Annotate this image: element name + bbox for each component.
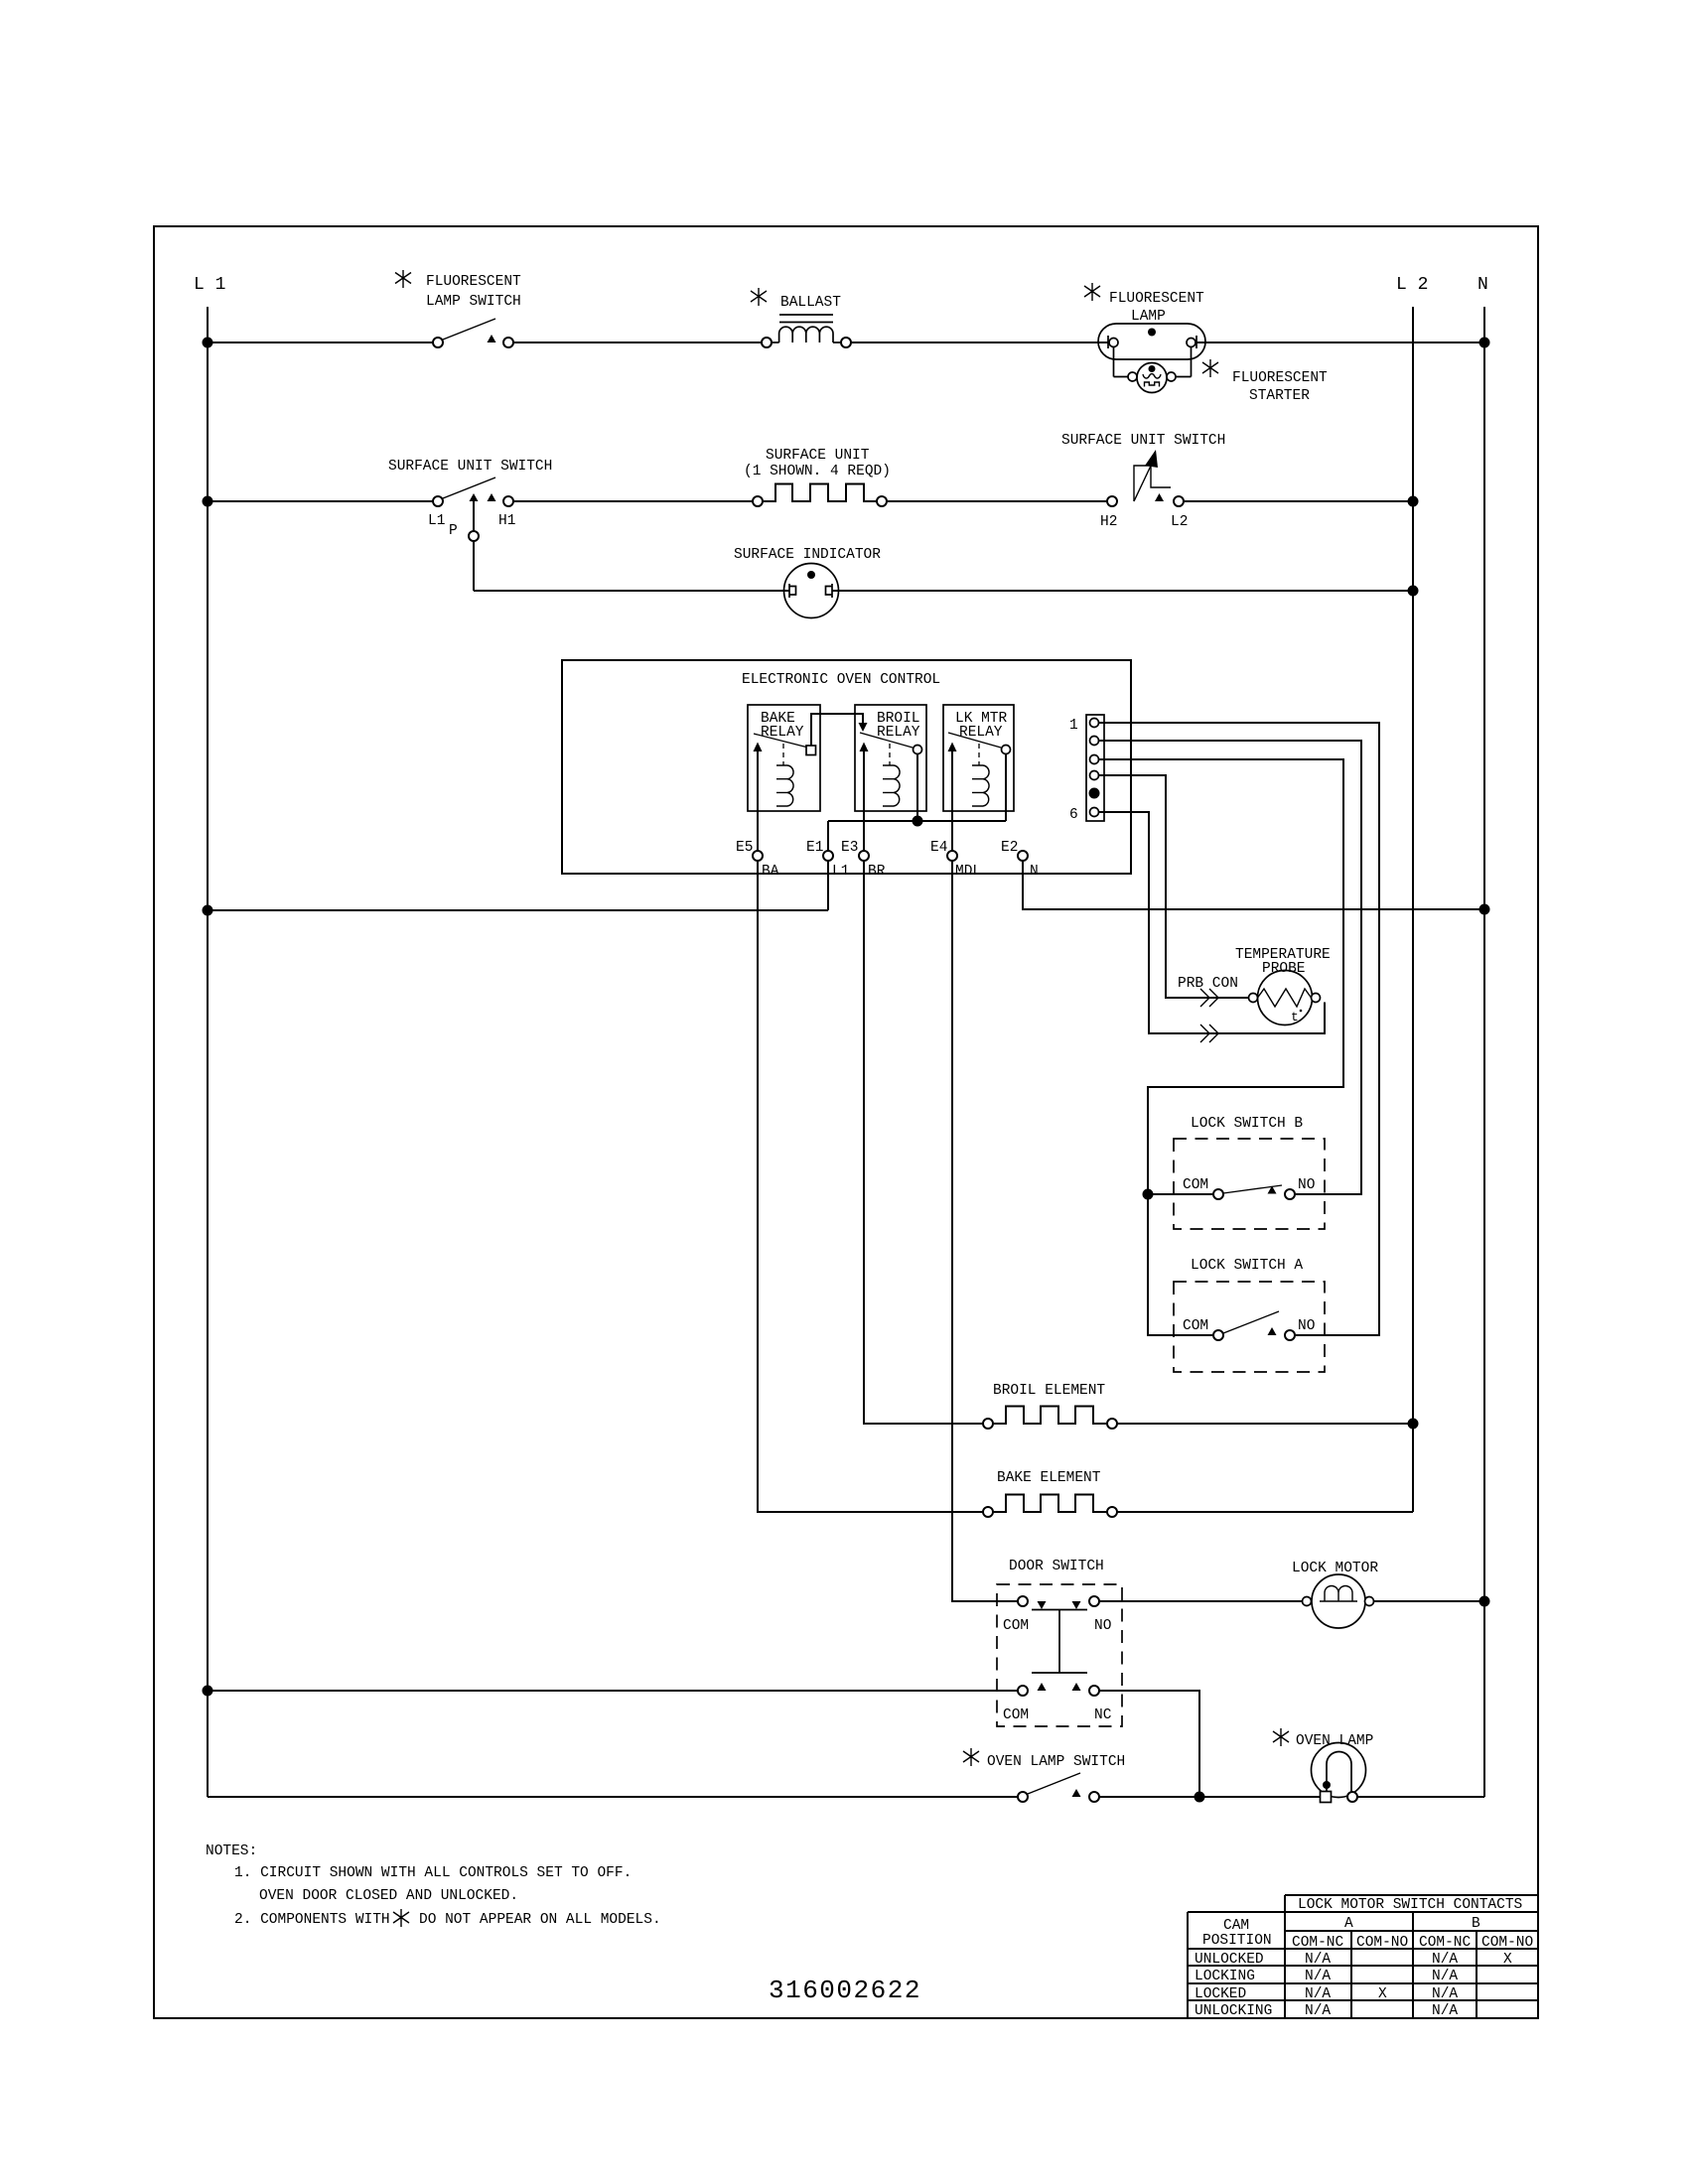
SECTION:EOC [758, 861, 1418, 1517]
wire pin3 to lock switches COM [1099, 759, 1344, 1335]
surface unit switch S2 (left) [433, 496, 443, 506]
terminal P [469, 531, 479, 541]
wire bake armature to E5 [757, 751, 759, 851]
pin 2 [1090, 737, 1099, 746]
node junction L1 row1 [204, 339, 212, 347]
svg-text:N/A: N/A [1305, 1952, 1331, 1968]
svg-text:NO: NO [1094, 1618, 1111, 1634]
fluorescent lamp switch S1 [433, 338, 443, 347]
svg-text:316002622: 316002622 [769, 1976, 921, 2005]
svg-text:PRB CON: PRB CON [1178, 976, 1238, 992]
fluorescent starter ST1 [1137, 363, 1167, 393]
svg-text:NC: NC [1094, 1707, 1112, 1723]
svg-text:SURFACE UNIT SWITCH: SURFACE UNIT SWITCH [388, 459, 552, 475]
svg-text:N/A: N/A [1305, 1969, 1331, 1984]
wire L1 to door switch lower COM [208, 1690, 1018, 1692]
svg-text:L 2: L 2 [1396, 275, 1428, 295]
svg-text:H2: H2 [1100, 514, 1117, 530]
wire L1 bottom to oven lamp switch [208, 1796, 1018, 1798]
svg-text:COM: COM [1003, 1618, 1029, 1634]
svg-text:COM-NC: COM-NC [1419, 1935, 1472, 1951]
wire N vertical bus [1483, 307, 1485, 1797]
wire pin2 to lock switch B NO [1099, 741, 1362, 1194]
node junction N row1 [1480, 339, 1489, 347]
svg-text:COM-NO: COM-NO [1356, 1935, 1408, 1951]
svg-text:LOCKING: LOCKING [1195, 1969, 1255, 1984]
wire lamp switch to ballast [513, 341, 762, 343]
svg-text:(1 SHOWN. 4 REQD): (1 SHOWN. 4 REQD) [744, 464, 891, 479]
fluorescent lamp label + asterisk [1084, 283, 1100, 301]
svg-text:LAMP SWITCH: LAMP SWITCH [426, 294, 521, 310]
terminal E5 [753, 851, 763, 861]
node junction L2 broil [1409, 1420, 1418, 1429]
svg-text:P: P [449, 523, 458, 539]
svg-text:BROIL ELEMENT: BROIL ELEMENT [993, 1383, 1105, 1399]
svg-text:UNLOCKING: UNLOCKING [1195, 2003, 1272, 2019]
svg-text:2. COMPONENTS WITH: 2. COMPONENTS WITH [234, 1912, 390, 1928]
lock motor relay K3 [943, 705, 1014, 811]
svg-text:BA: BA [762, 864, 779, 880]
terminal E4 [947, 851, 957, 861]
wire BA E5 to bake element [758, 861, 983, 1512]
svg-text:H1: H1 [498, 513, 515, 529]
svg-text:FLUORESCENT: FLUORESCENT [1232, 370, 1328, 386]
svg-text:X: X [1503, 1952, 1512, 1968]
wire P to surface indicator [474, 590, 789, 592]
probe connector chevrons bottom [1200, 1024, 1218, 1042]
svg-text:N: N [1030, 864, 1039, 880]
pin 5 [1090, 789, 1099, 798]
svg-text:OVEN LAMP: OVEN LAMP [1296, 1733, 1373, 1749]
wire MDL E4 to door switch COM [952, 861, 1018, 1601]
svg-text:1: 1 [1069, 718, 1078, 734]
svg-text:LOCK SWITCH A: LOCK SWITCH A [1191, 1258, 1303, 1274]
svg-text:ELECTRONIC OVEN CONTROL: ELECTRONIC OVEN CONTROL [742, 672, 940, 688]
ballast asterisk [751, 288, 767, 306]
svg-text:NO: NO [1298, 1318, 1315, 1334]
wire BR E3 to broil element [864, 861, 983, 1424]
wire surface unit to surface unit switch (right) [887, 500, 1107, 502]
broil relay K2 [855, 705, 926, 811]
svg-text:B: B [1472, 1916, 1480, 1932]
svg-text:E1: E1 [806, 840, 823, 856]
svg-text:FLUORESCENT: FLUORESCENT [1109, 291, 1204, 307]
lock motor switch contacts table [1188, 1895, 1538, 2018]
wire pin1 to lock switch A NO [1099, 723, 1380, 1335]
pin 1 [1090, 719, 1099, 728]
svg-text:E4: E4 [930, 840, 947, 856]
wire pin4 to probe connector [1099, 775, 1249, 998]
svg-text:N/A: N/A [1305, 1986, 1331, 2002]
wire door switch NC to lamp line [1099, 1691, 1199, 1797]
svg-text:LOCK MOTOR SWITCH CONTACTS: LOCK MOTOR SWITCH CONTACTS [1298, 1897, 1522, 1913]
svg-text:RELAY: RELAY [877, 725, 920, 741]
svg-text:N/A: N/A [1305, 2003, 1331, 2019]
wire L1 bus to E1 [208, 861, 828, 910]
oven lamp switch S7 [963, 1748, 979, 1766]
svg-text:NOTES:: NOTES: [206, 1843, 257, 1859]
border frame [154, 226, 1538, 2018]
terminal E3 [859, 851, 869, 861]
svg-text:LOCKED: LOCKED [1195, 1986, 1246, 2002]
svg-text:UNLOCKED: UNLOCKED [1195, 1952, 1264, 1968]
svg-text:COM-NO: COM-NO [1481, 1935, 1533, 1951]
node junction lamp line [1196, 1793, 1204, 1802]
svg-text:CAM: CAM [1223, 1918, 1249, 1934]
node junction L1 row2 [204, 497, 212, 506]
svg-text:MDL: MDL [955, 864, 981, 880]
svg-text:N: N [1477, 275, 1488, 295]
svg-text:N/A: N/A [1432, 1986, 1458, 2002]
wire P terminal drop [473, 501, 475, 531]
node junction L1 bus [204, 906, 212, 915]
wire bake contact to broil relay pivot [811, 714, 863, 746]
svg-text:SURFACE UNIT: SURFACE UNIT [766, 448, 870, 464]
terminal E1 [823, 851, 833, 861]
wire lamp pins down to starter loop [1114, 347, 1192, 377]
svg-text:BR: BR [868, 864, 886, 880]
svg-text:t: t [1291, 1010, 1299, 1024]
fluorescent lamp switch asterisk [395, 270, 411, 288]
svg-text:FLUORESCENT: FLUORESCENT [426, 274, 521, 290]
wire lock switch B COM branch [1148, 1193, 1213, 1195]
door switch lower contacts [1018, 1686, 1028, 1696]
SECTION:TOP [204, 660, 1489, 1335]
svg-text:POSITION: POSITION [1202, 1933, 1272, 1949]
wire H1 to surface unit [513, 500, 753, 502]
SECTION:RIGHT [204, 861, 1489, 1803]
wire L2 vertical bus [1412, 307, 1414, 1512]
svg-text:E3: E3 [841, 840, 858, 856]
wire broil contact down to junction [916, 754, 918, 822]
pin 4 [1090, 771, 1099, 780]
door switch link bar [1032, 1610, 1087, 1674]
wire broil element to L2 [1117, 1423, 1413, 1425]
wire lock motor to N [1374, 1600, 1485, 1602]
wire row2 L1 to surface unit switch [208, 500, 433, 502]
svg-text:E2: E2 [1001, 840, 1018, 856]
node junction broil contact bus [914, 817, 922, 826]
svg-text:LAMP: LAMP [1131, 309, 1166, 325]
svg-text:L2: L2 [1171, 514, 1188, 530]
svg-text:COM-NC: COM-NC [1292, 1935, 1344, 1951]
node junction L2 row2 [1409, 497, 1418, 506]
pin 6 [1090, 808, 1099, 817]
svg-text:STARTER: STARTER [1249, 388, 1310, 404]
svg-text:BAKE ELEMENT: BAKE ELEMENT [997, 1470, 1101, 1486]
node junction lock COM feed [1144, 1190, 1153, 1199]
note asterisk [393, 1909, 409, 1927]
svg-text:L 1: L 1 [194, 275, 225, 295]
svg-text:NO: NO [1298, 1177, 1315, 1193]
svg-text:SURFACE INDICATOR: SURFACE INDICATOR [734, 547, 881, 563]
node junction L1 door switch [204, 1687, 212, 1696]
wire surface switch to L2 [1184, 500, 1413, 502]
SECTION:BOTTOM [206, 1843, 1538, 2019]
svg-text:RELAY: RELAY [761, 725, 804, 741]
svg-text:N/A: N/A [1432, 2003, 1458, 2019]
svg-text:SURFACE UNIT SWITCH: SURFACE UNIT SWITCH [1061, 433, 1225, 449]
svg-text:L1: L1 [428, 513, 445, 529]
wire lock motor relay contact down [1005, 754, 1007, 822]
wire ballast to fluorescent lamp [851, 341, 1108, 343]
electronic oven control box U1 [562, 660, 1131, 874]
node junction L2 indicator [1409, 587, 1418, 596]
connector J1 [1086, 715, 1104, 821]
wire broil armature to E3 [863, 751, 865, 851]
svg-text:OVEN DOOR CLOSED AND UNLOCKED.: OVEN DOOR CLOSED AND UNLOCKED. [259, 1888, 518, 1904]
svg-text:E5: E5 [736, 840, 753, 856]
wire lock motor armature to E4 [951, 751, 953, 851]
svg-text:COM: COM [1183, 1318, 1208, 1334]
wire oven lamp to N [1357, 1796, 1484, 1798]
wire E2 to N [1023, 861, 1484, 909]
pin 3 [1090, 755, 1099, 764]
probe connector chevrons top [1200, 989, 1218, 1007]
svg-text:COM: COM [1183, 1177, 1208, 1193]
wire E1 link bus [828, 821, 1006, 851]
svg-text:N/A: N/A [1432, 1969, 1458, 1984]
wire pin6 to probe return [1099, 812, 1326, 1033]
svg-text:DO NOT APPEAR ON ALL MODELS.: DO NOT APPEAR ON ALL MODELS. [419, 1912, 661, 1928]
wire surface indicator to L2 [832, 590, 1413, 592]
fluorescent starter label + asterisk [1202, 359, 1218, 377]
svg-text:COM: COM [1003, 1707, 1029, 1723]
fluorescent lamp FL1 [1098, 324, 1205, 359]
ballast L1 (inductor with core bars) [762, 338, 772, 347]
svg-text:1. CIRCUIT SHOWN WITH ALL CONT: 1. CIRCUIT SHOWN WITH ALL CONTROLS SET T… [234, 1865, 632, 1881]
terminal E2 [1018, 851, 1028, 861]
wire fluorescent lamp to N [1196, 341, 1484, 343]
node junction N lock motor [1480, 1597, 1489, 1606]
svg-text:A: A [1344, 1916, 1353, 1932]
svg-text:DOOR SWITCH: DOOR SWITCH [1009, 1559, 1104, 1574]
svg-text:BALLAST: BALLAST [780, 295, 841, 311]
svg-text:OVEN LAMP SWITCH: OVEN LAMP SWITCH [987, 1754, 1125, 1770]
node junction N E2 [1480, 905, 1489, 914]
svg-text:6: 6 [1069, 807, 1078, 823]
bake relay K1 [748, 705, 820, 811]
wire oven lamp switch to oven lamp [1099, 1796, 1320, 1798]
wire L1 vertical bus [207, 307, 209, 1797]
svg-text:L1: L1 [832, 864, 849, 880]
wire row1 L1 to lamp switch [208, 341, 433, 343]
svg-text:X: X [1378, 1986, 1387, 2002]
svg-text:LOCK SWITCH B: LOCK SWITCH B [1191, 1116, 1303, 1132]
svg-text:N/A: N/A [1432, 1952, 1458, 1968]
wire bake element to L2 [1117, 1511, 1413, 1513]
oven lamp DS2 [1273, 1728, 1289, 1746]
wire door switch NO to lock motor [1099, 1600, 1303, 1602]
